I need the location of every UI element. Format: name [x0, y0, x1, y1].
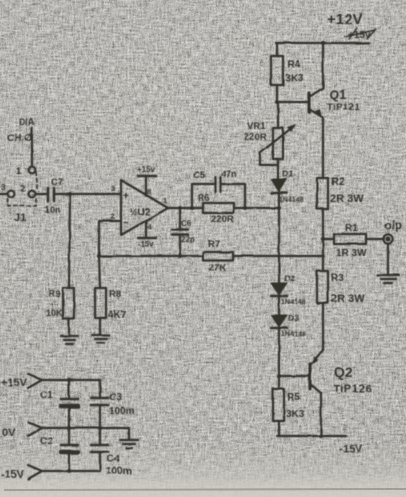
op-amp -15v pin 4 [138, 220, 156, 249]
node output [321, 237, 325, 241]
wire R5 to -15V rail [278, 421, 280, 436]
svg-text:D1: D1 [282, 169, 294, 179]
wire 0V rail [42, 427, 129, 429]
svg-text:220R: 220R [244, 132, 267, 143]
svg-text:2R 3W: 2R 3W [330, 193, 364, 205]
connector J1 dashed outline [8, 172, 37, 206]
diode D1 1N4148 [271, 169, 304, 204]
svg-text:R7: R7 [208, 239, 220, 250]
svg-text:R3: R3 [331, 273, 344, 284]
node C5 left tap [190, 206, 194, 210]
wire node to R1 [323, 238, 334, 240]
-15V supply input [1, 465, 42, 481]
wire R6 to bias node [234, 207, 279, 209]
wire R4 to base node [276, 85, 278, 102]
wire VR1 top [277, 102, 279, 128]
wire R7 to output node [233, 255, 323, 257]
svg-text:+15v: +15v [137, 165, 156, 174]
svg-text:+15V: +15V [1, 377, 28, 389]
svg-text:D/A: D/A [19, 117, 35, 127]
wire R2 to output node [322, 209, 324, 239]
wire VR1 to D1 [277, 159, 279, 179]
svg-text:−: − [123, 218, 129, 229]
wire R1 to output terminal [366, 238, 383, 240]
resistor R9 10K [46, 288, 74, 319]
wire R9 drop [69, 194, 70, 288]
svg-text:D2: D2 [284, 273, 295, 283]
+15V supply input [1, 374, 42, 389]
node C1/C2 0V [67, 426, 71, 430]
node base junction [275, 100, 279, 104]
diode D2 1N4148 [271, 273, 306, 306]
label J1 [14, 212, 26, 224]
op-amp U2 [111, 180, 168, 235]
capacitor C7 10n [45, 177, 63, 215]
svg-text:C2: C2 [40, 436, 53, 447]
node Q2 base junction [277, 374, 281, 378]
node rail/Q2 collector [319, 434, 323, 438]
wire base node to Q1 base [277, 101, 308, 103]
svg-text:2: 2 [111, 212, 115, 221]
capacitor C3 100m [91, 380, 135, 428]
svg-text:TiP121: TiP121 [327, 102, 361, 113]
wire CH select [31, 128, 33, 165]
svg-text:1N4148: 1N4148 [281, 299, 306, 306]
svg-text:47n: 47n [221, 169, 237, 179]
pin 2 J1 [20, 183, 35, 197]
wire R9 to ground [68, 319, 70, 336]
svg-text:R2: R2 [331, 176, 345, 188]
output terminal o/p [383, 218, 402, 244]
ground 0V [120, 440, 138, 448]
node feedback R7 tap [321, 254, 325, 258]
resistor R1 1R 3W [334, 223, 367, 259]
svg-text:C3: C3 [109, 392, 122, 403]
resistor R4 3K3 [271, 56, 304, 85]
diode D3 1N4148 [271, 313, 306, 338]
svg-text:1: 1 [163, 196, 167, 205]
svg-text:C5: C5 [193, 170, 206, 181]
svg-text:R6: R6 [198, 193, 210, 203]
svg-text:0V: 0V [2, 427, 16, 439]
svg-text:TiP126: TiP126 [333, 383, 372, 395]
wire R8 drop [99, 256, 100, 288]
capacitor C2 [40, 428, 78, 471]
capacitor C5 47n [192, 169, 245, 208]
trimmer VR1 220R [244, 121, 296, 165]
svg-text:½U2: ½U2 [129, 207, 151, 218]
svg-text:220R: 220R [211, 214, 234, 225]
wire R8 to ground [99, 318, 101, 335]
wire C7 to op-amp input [54, 193, 121, 195]
wire output node down [322, 239, 324, 271]
label CH.0 [7, 133, 32, 144]
0V supply input [2, 422, 42, 439]
svg-text:8: 8 [147, 187, 151, 196]
wire -15V rail [277, 435, 346, 437]
capacitor C6 22p [172, 208, 195, 256]
svg-text:10K: 10K [46, 308, 63, 318]
svg-text:VR1: VR1 [247, 121, 266, 132]
transistor Q2 TIP126 [310, 350, 372, 436]
wire +V rail [276, 42, 369, 44]
svg-text:Q1: Q1 [329, 87, 346, 102]
svg-text:+12V: +12V [327, 11, 362, 28]
svg-text:100m: 100m [109, 406, 135, 417]
label D/A [19, 117, 35, 127]
wire pin3 stub [0, 193, 7, 195]
wire pin2 to C7 [36, 193, 46, 195]
capacitor C1 [40, 380, 78, 428]
svg-text:3: 3 [1, 182, 6, 192]
svg-text:3K3: 3K3 [285, 73, 304, 84]
ground R9 [61, 336, 78, 344]
svg-text:1: 1 [16, 166, 22, 177]
wire R3 to Q2 emitter [322, 303, 324, 350]
wire o/p to ground [387, 244, 389, 274]
svg-text:4K7: 4K7 [108, 310, 127, 321]
transistor Q1 TIP121 [309, 43, 361, 178]
op-amp +15v pin 8 [137, 165, 156, 196]
svg-text:10n: 10n [45, 205, 61, 215]
wire +15V rail [42, 379, 100, 381]
svg-text:C6: C6 [181, 219, 192, 228]
wire rail to R4 [276, 43, 278, 56]
node C5 right tap [243, 206, 247, 210]
node rail/Q1 collector [321, 41, 325, 45]
node feedback left [97, 254, 101, 258]
svg-text:1R 3W: 1R 3W [336, 248, 367, 259]
node C3/C4 0V [98, 426, 102, 430]
svg-text:R5: R5 [287, 392, 300, 403]
wire to Q2 base [279, 375, 310, 377]
svg-text:R4: R4 [287, 59, 300, 70]
resistor R3 2R 3W [317, 271, 365, 305]
svg-text:o/p: o/p [384, 218, 402, 232]
wire op-amp output [168, 207, 203, 209]
node C1 tap [67, 378, 71, 382]
svg-text:2R 3W: 2R 3W [331, 293, 365, 305]
resistor R6 220R [198, 193, 234, 225]
svg-text:1N4148: 1N4148 [281, 331, 306, 338]
resistor R5 3K3 [273, 389, 305, 421]
wire D2 to D3 [278, 296, 280, 315]
svg-text:C7: C7 [51, 177, 63, 188]
svg-text:22p: 22p [181, 235, 195, 244]
svg-text:D3: D3 [288, 313, 299, 323]
ground at output [377, 275, 399, 283]
wire 0V to ground [128, 428, 130, 440]
svg-text:100m: 100m [106, 466, 132, 477]
node R9 tap [68, 192, 72, 196]
svg-text:2: 2 [20, 183, 25, 193]
node C2 bottom [67, 469, 71, 473]
wire D3 to R5 [278, 328, 280, 389]
wire feedback to R7 [99, 255, 203, 257]
node C6 tap [178, 206, 182, 210]
svg-text:3: 3 [111, 184, 115, 193]
node C6 bottom [178, 254, 182, 258]
pin 1 J1 [16, 166, 35, 177]
svg-text:R9: R9 [49, 289, 61, 299]
svg-text:+: + [123, 191, 129, 202]
svg-text:R8: R8 [109, 289, 121, 300]
svg-text:C1: C1 [40, 390, 53, 401]
svg-text:Q2: Q2 [334, 364, 353, 380]
svg-text:C4: C4 [107, 454, 120, 465]
wire inverting input [99, 221, 121, 256]
svg-text:-15V: -15V [1, 469, 25, 481]
svg-text:-15V: -15V [339, 443, 363, 455]
wire -15V rail [42, 470, 100, 472]
capacitor C4 100m [91, 428, 132, 477]
resistor R2 2R 3W [317, 176, 364, 209]
node bias/R6 junction [277, 206, 281, 210]
svg-text:CH.Ø: CH.Ø [7, 133, 32, 144]
wire D1 to D2 [278, 193, 280, 283]
+12V supply label [327, 11, 362, 28]
resistor R7 27K [203, 239, 233, 274]
pin 3 J1 [1, 182, 14, 197]
svg-text:27K: 27K [209, 263, 227, 274]
-15V label [339, 443, 363, 455]
svg-text:1N4148: 1N4148 [279, 197, 304, 204]
svg-text:-15v: -15v [138, 240, 155, 249]
svg-text:R1: R1 [345, 223, 358, 234]
resistor R8 4K7 [95, 288, 127, 321]
+15v crossed-out annotation [345, 28, 376, 41]
svg-text:J1: J1 [14, 212, 26, 224]
svg-text:3K3: 3K3 [286, 409, 305, 420]
ground R8 [92, 335, 109, 343]
